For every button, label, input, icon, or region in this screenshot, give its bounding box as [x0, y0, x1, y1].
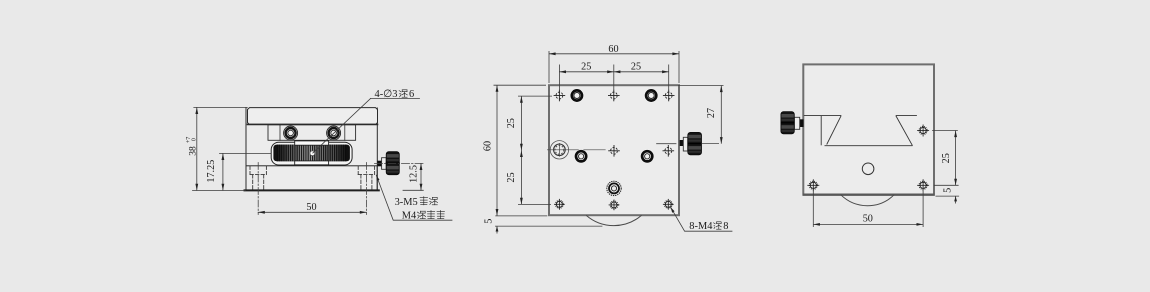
svg-text:12.5: 12.5	[408, 165, 419, 183]
dim 25 right	[932, 130, 958, 132]
dim 50 bottom	[812, 190, 814, 227]
row2 crosshairs	[608, 145, 674, 157]
dim 25/25 top	[558, 65, 560, 91]
base block	[246, 166, 377, 190]
dovetail groove	[804, 116, 917, 146]
dim 12.5	[403, 189, 423, 191]
dim 38 line	[196, 107, 198, 190]
center bottom threaded boss	[607, 181, 621, 195]
svg-text:50: 50	[306, 202, 316, 213]
hole centerlines	[257, 163, 259, 215]
body fill	[246, 108, 377, 190]
top tab	[295, 141, 329, 145]
svg-text:8: 8	[723, 221, 728, 232]
label M4 countersink	[402, 210, 445, 221]
row1 crosshair holes	[554, 90, 675, 102]
body left edge	[245, 108, 247, 190]
leader 3-M5	[376, 175, 452, 220]
dim 60 top	[548, 51, 550, 83]
leader 8-M4	[671, 207, 733, 231]
top plate	[248, 108, 378, 125]
svg-text:27: 27	[706, 108, 717, 118]
dim 38 label	[186, 137, 199, 156]
knurled wheel	[271, 141, 352, 165]
carriage block	[268, 125, 356, 140]
label 8-M4 deep8	[689, 221, 728, 232]
leader 4-phi3	[313, 98, 371, 153]
plate	[803, 64, 934, 194]
screw left	[284, 126, 298, 140]
svg-text:17.25: 17.25	[206, 160, 217, 183]
side knob (front view, right)	[378, 152, 400, 175]
svg-text:3-M5: 3-M5	[395, 197, 418, 208]
dim 60 left	[494, 84, 547, 86]
svg-text:4-∅3: 4-∅3	[375, 89, 398, 100]
knob centerline inside plate	[656, 143, 676, 145]
label 3-M5 through	[395, 197, 438, 208]
svg-text:5: 5	[943, 188, 954, 193]
dim 17.25 line	[222, 153, 224, 190]
svg-text:M4: M4	[402, 211, 417, 222]
bottom tab	[295, 161, 329, 165]
wheel arc bottom	[586, 215, 642, 225]
center circle	[862, 163, 874, 175]
svg-text:8-M4: 8-M4	[689, 221, 713, 232]
hidden counterbore hole left (dashed)	[250, 166, 266, 190]
svg-text:5: 5	[483, 219, 494, 224]
svg-text:25: 25	[506, 118, 517, 128]
dim 17.25 extension (wheel centerline)	[220, 152, 272, 154]
dim 5 left	[495, 215, 547, 217]
dim 38 extension bottom	[193, 189, 246, 191]
svg-text:60: 60	[482, 141, 493, 151]
svg-text:25: 25	[941, 153, 952, 163]
wheel center hole	[310, 151, 315, 156]
svg-text:60: 60	[608, 44, 618, 55]
hidden counterbore hole right (dashed)	[358, 166, 374, 190]
screw right	[327, 126, 341, 140]
knob (side view, left)	[781, 112, 804, 134]
wheel arc bottom	[841, 195, 895, 206]
svg-text:0: 0	[191, 138, 197, 141]
svg-text:25: 25	[506, 172, 517, 182]
dim 27 right	[678, 85, 724, 87]
label 4-phi3 deep6	[375, 89, 415, 100]
dim 25/25 left	[518, 95, 552, 97]
row2 screws	[574, 149, 654, 163]
knob centerline	[375, 162, 424, 164]
bottom small threaded holes	[554, 199, 674, 210]
dim 38 extension top	[194, 106, 248, 108]
svg-text:38: 38	[187, 146, 198, 156]
svg-text:25: 25	[631, 62, 641, 73]
plate	[549, 85, 679, 215]
svg-text:25: 25	[581, 62, 591, 73]
svg-text:6: 6	[409, 89, 414, 100]
threaded holes	[807, 125, 929, 192]
svg-text:50: 50	[863, 214, 873, 225]
dim 5 right	[934, 184, 959, 186]
knob (top view, right)	[680, 132, 702, 154]
big left hole	[547, 141, 606, 159]
dim 50 (front)	[258, 211, 366, 213]
row1 screws	[570, 89, 658, 103]
body right edge	[376, 108, 378, 190]
